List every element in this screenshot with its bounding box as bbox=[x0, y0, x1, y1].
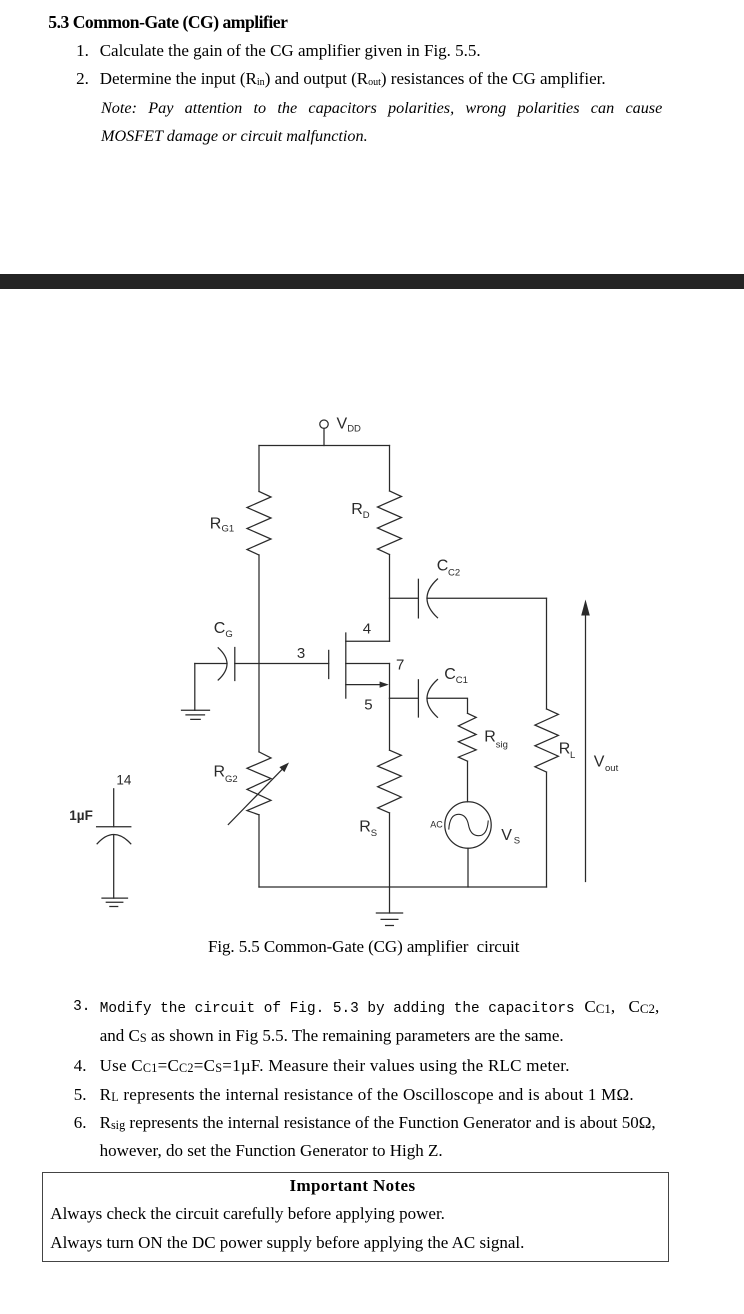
svg-text:R: R bbox=[359, 819, 371, 836]
capacitor CC1 flat plate bbox=[417, 680, 419, 717]
label CC1 bbox=[444, 666, 468, 686]
svg-text:sig: sig bbox=[496, 740, 508, 751]
svg-text:L: L bbox=[570, 750, 575, 761]
note italic justified bbox=[101, 98, 662, 118]
svg-text:G2: G2 bbox=[225, 774, 238, 785]
transistor Q1 body stub bbox=[346, 663, 390, 665]
capacitor C14 top wire (node 14) bbox=[113, 789, 115, 827]
item 4 bbox=[74, 1056, 87, 1076]
pin 3 bbox=[297, 645, 305, 662]
wire source to RS bbox=[389, 698, 391, 750]
resistor RD bbox=[378, 491, 402, 555]
wire RS to rail bbox=[389, 813, 391, 887]
wire bottom rail bbox=[259, 886, 547, 888]
svg-text:R: R bbox=[210, 515, 222, 532]
pin 5 bbox=[364, 697, 372, 714]
svg-text:R: R bbox=[484, 729, 496, 746]
title bbox=[48, 12, 287, 32]
wire C14 to ground bbox=[113, 835, 115, 899]
resistor RG1 bbox=[247, 492, 271, 556]
svg-text:4: 4 bbox=[363, 621, 371, 638]
node 14 bbox=[116, 773, 132, 788]
svg-text:D: D bbox=[363, 510, 370, 521]
label Rsig bbox=[484, 729, 508, 751]
RG2 variable arrow bbox=[228, 763, 289, 825]
capacitor CC1 wire bbox=[390, 697, 419, 699]
wire body corner down (node 7) bbox=[389, 664, 391, 699]
VDD terminal bbox=[320, 420, 328, 428]
wire RL top lead bbox=[546, 598, 548, 709]
svg-text:14: 14 bbox=[116, 773, 132, 788]
item 2 bbox=[76, 69, 89, 89]
ground (main) bbox=[376, 913, 402, 926]
wire RG1 top lead bbox=[258, 446, 260, 492]
capacitor CC2 curved plate bbox=[427, 579, 438, 618]
Vout arrow bbox=[581, 600, 590, 882]
wire RL bottom lead bbox=[546, 772, 548, 887]
wire VS to rail bbox=[467, 848, 469, 887]
svg-text:DD: DD bbox=[347, 424, 361, 435]
svg-text:V: V bbox=[594, 754, 605, 771]
svg-text:7: 7 bbox=[396, 656, 404, 673]
svg-text:5: 5 bbox=[364, 697, 372, 714]
svg-text:C: C bbox=[214, 620, 226, 637]
wire gate (node 3) bbox=[235, 663, 329, 665]
label Vout bbox=[594, 754, 619, 775]
wire CG left bbox=[195, 663, 227, 665]
capacitor CC2 flat plate bbox=[417, 579, 419, 618]
svg-text:AC: AC bbox=[430, 820, 443, 830]
svg-text:S: S bbox=[514, 836, 520, 847]
svg-text:V: V bbox=[501, 827, 512, 844]
resistor RS bbox=[378, 750, 402, 813]
source VS circle bbox=[445, 802, 491, 848]
wire top rail bbox=[259, 445, 390, 447]
item 6 bbox=[74, 1113, 87, 1133]
pin 7 bbox=[396, 656, 404, 673]
label CG bbox=[214, 620, 233, 640]
wire RD top lead bbox=[389, 446, 391, 492]
wire RD to drain bbox=[389, 555, 391, 642]
wire RG2 bottom lead bbox=[258, 815, 260, 887]
item 5 bbox=[74, 1085, 87, 1105]
resistor RG2 bbox=[247, 752, 271, 815]
label RL bbox=[559, 741, 575, 762]
capacitor C14 flat plate bbox=[97, 826, 131, 828]
svg-text:3: 3 bbox=[297, 645, 305, 662]
wire rail to ground bbox=[389, 887, 391, 913]
svg-text:C1: C1 bbox=[456, 675, 468, 686]
label RS bbox=[359, 819, 377, 840]
transistor Q1 channel bar bbox=[345, 633, 347, 698]
wire Rsig to VS bbox=[467, 761, 469, 802]
figure caption bbox=[208, 937, 519, 957]
source VS sine bbox=[449, 814, 488, 835]
svg-text:out: out bbox=[605, 763, 619, 774]
wire drain stub (node 4) bbox=[346, 640, 390, 642]
svg-text:G1: G1 bbox=[222, 524, 235, 535]
value 1uF bbox=[69, 808, 93, 823]
ground (CG) bbox=[182, 710, 210, 719]
wire RG1 to RG2 (through gate node) bbox=[258, 555, 260, 752]
capacitor CG curved plate bbox=[218, 648, 227, 680]
svg-text:V: V bbox=[337, 415, 348, 432]
capacitor CC2 wire bbox=[390, 597, 419, 599]
svg-text:R: R bbox=[351, 501, 363, 518]
black separator bar bbox=[0, 274, 744, 289]
wire CC2 to RL bbox=[427, 597, 547, 599]
capacitor CG flat plate bbox=[234, 648, 236, 681]
ground (C14) bbox=[102, 898, 128, 906]
svg-text:S: S bbox=[371, 828, 377, 839]
important notes box bbox=[42, 1172, 669, 1263]
wire CC1 to Rsig bbox=[427, 698, 468, 713]
resistor RL bbox=[535, 709, 559, 772]
svg-text:C2: C2 bbox=[448, 567, 460, 578]
wire CG to ground bbox=[194, 664, 196, 711]
pin 4 bbox=[363, 621, 371, 638]
label CC2 bbox=[437, 557, 460, 578]
capacitor CC1 curved plate bbox=[427, 680, 438, 718]
capacitor C14 curved plate bbox=[97, 835, 131, 844]
resistor Rsig bbox=[458, 713, 476, 761]
svg-text:R: R bbox=[214, 764, 226, 781]
label VDD bbox=[337, 415, 362, 434]
label RG2 bbox=[214, 764, 238, 786]
item 3 bbox=[73, 997, 90, 1017]
svg-text:C: C bbox=[444, 666, 456, 683]
wire VDD stub bbox=[323, 428, 325, 445]
svg-text:C: C bbox=[437, 557, 449, 574]
label VS bbox=[501, 827, 520, 847]
label AC bbox=[430, 820, 443, 830]
label RD bbox=[351, 501, 370, 521]
item 1 bbox=[76, 41, 89, 61]
label RG1 bbox=[210, 515, 234, 534]
transistor Q1 source stub with arrow bbox=[346, 682, 389, 688]
svg-text:R: R bbox=[559, 741, 571, 758]
transistor Q1 gate bar bbox=[328, 650, 330, 678]
svg-text:G: G bbox=[225, 629, 232, 640]
svg-text:1µF: 1µF bbox=[69, 808, 93, 823]
